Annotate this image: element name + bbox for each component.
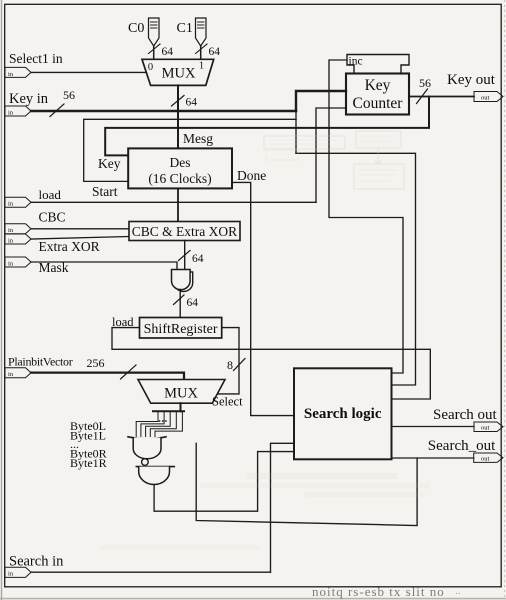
wire MUX2 output stub bbox=[180, 403, 182, 411]
wire byte lane 2 bbox=[141, 411, 164, 436]
label Search out bbox=[433, 407, 498, 423]
and gate G2 top bar bbox=[136, 466, 174, 468]
port load bbox=[5, 197, 31, 207]
svg-text:0: 0 bbox=[148, 62, 153, 73]
port Extra XOR bbox=[5, 234, 31, 244]
label Byte0L bbox=[70, 419, 106, 433]
label Select1 in bbox=[9, 51, 63, 66]
wire ShiftRegister output 8 to MUX2 select bbox=[218, 328, 240, 394]
wire Extra XOR bbox=[31, 237, 129, 240]
label Byte1L bbox=[70, 429, 106, 443]
wire inc from search logic bbox=[329, 60, 403, 373]
wire CBC output 64 bbox=[184, 241, 186, 270]
svg-text:inc: inc bbox=[349, 56, 363, 68]
wire start line bbox=[84, 119, 296, 181]
and gate G2 body bbox=[139, 467, 170, 485]
svg-text:64: 64 bbox=[162, 46, 174, 58]
label Start bbox=[92, 184, 118, 199]
bus slash 64 (G0 out) bbox=[174, 295, 199, 309]
port Search_out bbox=[474, 453, 503, 463]
and gate G0 (mask AND) bbox=[172, 270, 191, 290]
svg-text:in: in bbox=[8, 71, 14, 78]
svg-text:ShiftRegister: ShiftRegister bbox=[144, 322, 218, 337]
wire byte lane 5 bbox=[155, 411, 182, 436]
wire byte lane 3 bbox=[146, 411, 171, 436]
svg-text:Counter: Counter bbox=[353, 95, 404, 112]
label PlainbitVector bbox=[8, 355, 105, 371]
nor gate G1 bubble bbox=[142, 459, 149, 466]
svg-text:CBC & Extra XOR: CBC & Extra XOR bbox=[132, 224, 237, 239]
svg-text:in: in bbox=[8, 201, 14, 208]
label Key in bbox=[9, 88, 75, 107]
wire long cross line to search bbox=[296, 153, 416, 385]
constant C0 symbol bbox=[149, 18, 160, 46]
svg-text:in: in bbox=[8, 260, 14, 267]
svg-text:out: out bbox=[481, 425, 490, 432]
bus slash 64 (Mesg) bbox=[172, 96, 198, 109]
label Select bbox=[212, 395, 243, 409]
svg-text:Select: Select bbox=[212, 395, 243, 409]
label Byte1R bbox=[70, 456, 107, 470]
mux MUX2 bbox=[138, 380, 225, 404]
wire PlainbitVector bus bbox=[31, 373, 184, 380]
bus slash 56 (Key out) bbox=[417, 76, 432, 104]
wire byte lane 1 bbox=[136, 411, 158, 436]
svg-text:in: in bbox=[8, 237, 14, 244]
port Select1 in bbox=[5, 67, 31, 77]
svg-text:MUX: MUX bbox=[162, 66, 196, 82]
svg-text:PlainbitVector: PlainbitVector bbox=[8, 355, 73, 369]
register ShiftRegister bbox=[140, 318, 222, 339]
wire CBC bbox=[31, 228, 129, 230]
wire key-in riser to counter bbox=[296, 91, 346, 111]
svg-text:64: 64 bbox=[209, 46, 221, 58]
port Key out bbox=[474, 92, 503, 102]
port Search out bbox=[474, 422, 503, 432]
wire Des output bbox=[177, 188, 179, 221]
label dots bbox=[70, 437, 79, 451]
constant C0 label bbox=[128, 21, 144, 36]
port CBC bbox=[5, 224, 31, 234]
svg-text:64: 64 bbox=[187, 297, 199, 309]
svg-text:out: out bbox=[481, 456, 490, 463]
svg-text:Key out: Key out bbox=[447, 72, 496, 88]
wire Select1 to MUX1 bbox=[31, 71, 146, 73]
svg-text:Des: Des bbox=[170, 155, 191, 170]
wire Done to search logic bbox=[232, 182, 294, 415]
svg-text:1: 1 bbox=[199, 61, 204, 72]
wire branch riser loop bbox=[196, 443, 417, 525]
port PlainbitVector bbox=[5, 368, 31, 378]
node ellipsis dots bbox=[159, 420, 167, 422]
label Byte0R bbox=[70, 447, 107, 461]
block Des bbox=[128, 148, 232, 188]
svg-text:Key in: Key in bbox=[9, 91, 49, 107]
wire Mask to AND gate bbox=[31, 262, 177, 270]
block Search logic bbox=[294, 368, 392, 459]
wire ShiftRegister load loop from search logic bbox=[112, 328, 430, 399]
wire C1 to MUX bbox=[200, 46, 202, 59]
svg-text:CBC: CBC bbox=[39, 210, 66, 225]
svg-text:Mesg: Mesg bbox=[183, 131, 213, 146]
wire load bbox=[31, 201, 316, 203]
label Mesg bbox=[183, 131, 213, 146]
mux MUX1 bbox=[142, 59, 214, 85]
svg-text:Start: Start bbox=[92, 184, 118, 199]
port Search in bbox=[5, 567, 31, 577]
svg-text:8: 8 bbox=[227, 358, 233, 372]
label Search in bbox=[9, 554, 64, 570]
block CBC & Extra XOR bbox=[129, 222, 240, 241]
port Mask bbox=[5, 257, 31, 267]
scan page edge bottom bbox=[0, 598, 506, 600]
svg-text:Select1 in: Select1 in bbox=[9, 51, 63, 66]
wire counter-left control riser bbox=[316, 108, 346, 202]
wire Search_out lead bbox=[392, 457, 474, 459]
wire G2 output loop to search logic bbox=[154, 452, 294, 512]
constant C1 label bbox=[177, 21, 193, 36]
port Key in bbox=[5, 106, 31, 116]
label Search_out bbox=[428, 438, 496, 454]
nor gate G1 input arc bbox=[128, 437, 166, 439]
bus slash (Key in 56) bbox=[50, 104, 64, 117]
label Key out bbox=[447, 72, 496, 88]
label Extra XOR bbox=[39, 239, 100, 254]
bus slash 256 bbox=[121, 365, 137, 379]
wire riser continue down bbox=[295, 111, 297, 153]
wire key wrap-around to Des Key input bbox=[105, 97, 429, 156]
svg-text:(16 Clocks): (16 Clocks) bbox=[148, 171, 211, 186]
svg-text:out: out bbox=[481, 94, 490, 101]
bus width slash 64 (C1) bbox=[196, 44, 221, 58]
svg-text:load: load bbox=[112, 315, 134, 329]
svg-text:256: 256 bbox=[87, 356, 105, 370]
svg-text:in: in bbox=[8, 571, 14, 578]
svg-text:MUX: MUX bbox=[164, 386, 198, 402]
label CBC bbox=[39, 210, 66, 225]
svg-text:56: 56 bbox=[63, 88, 75, 102]
wire search-in feedback into search logic bbox=[271, 443, 295, 572]
bleed-through text bottom bbox=[312, 584, 461, 599]
svg-text:64: 64 bbox=[192, 253, 204, 265]
wire Key in bus bbox=[31, 110, 296, 112]
wire G0 output 64 bbox=[179, 289, 181, 317]
svg-text:Key: Key bbox=[365, 77, 391, 94]
label load bbox=[39, 187, 62, 202]
svg-text:load: load bbox=[39, 187, 62, 202]
and gate G0 shadow outline bbox=[174, 272, 192, 292]
constant C1 symbol bbox=[196, 18, 207, 46]
wire Key Counter output 56 bbox=[409, 96, 474, 98]
svg-text:56: 56 bbox=[419, 76, 431, 90]
wire MUX1 output 64 to Des bbox=[177, 85, 179, 148]
svg-text:noitq rs-esb tx slit no: noitq rs-esb tx slit no bbox=[312, 584, 445, 599]
svg-text:in: in bbox=[8, 109, 14, 116]
svg-text:64: 64 bbox=[186, 97, 198, 109]
svg-text:Search out: Search out bbox=[433, 407, 498, 423]
svg-text:C0: C0 bbox=[128, 21, 144, 36]
svg-text:C1: C1 bbox=[177, 21, 193, 36]
svg-text:Key: Key bbox=[98, 156, 121, 171]
scan page edge right dotted bbox=[504, 0, 506, 600]
label Done bbox=[237, 168, 266, 183]
nor gate G1 body bbox=[133, 438, 161, 459]
wire Search in bbox=[31, 571, 271, 573]
svg-text:in: in bbox=[8, 371, 14, 378]
bus slash 8 bbox=[227, 358, 245, 372]
svg-text:Byte1R: Byte1R bbox=[70, 456, 107, 470]
svg-text:Done: Done bbox=[237, 168, 266, 183]
register Key Counter bbox=[346, 74, 409, 115]
label Key (Des input) bbox=[98, 156, 121, 171]
svg-text:Search_out: Search_out bbox=[428, 438, 496, 454]
scan page edge left bbox=[1, 0, 3, 600]
svg-text:..: .. bbox=[455, 585, 461, 597]
inc tab on Key Counter bbox=[347, 55, 409, 74]
wire byte lane 4 bbox=[150, 411, 176, 436]
svg-text:Extra XOR: Extra XOR bbox=[39, 239, 100, 254]
bus width slash 64 (C0) bbox=[149, 44, 174, 58]
label Mask bbox=[39, 260, 69, 275]
bus slash 64 (CBC out) bbox=[179, 251, 204, 266]
wire Search out bbox=[392, 426, 475, 428]
node output bar bbox=[153, 410, 184, 412]
svg-text:in: in bbox=[8, 227, 14, 234]
label load (ShiftRegister) bbox=[112, 315, 134, 329]
svg-text:Search logic: Search logic bbox=[304, 406, 382, 422]
wire C0 to MUX bbox=[153, 46, 155, 59]
